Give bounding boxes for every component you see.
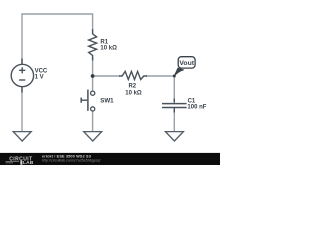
- wire C1 bottom to ground: [173, 108, 175, 132]
- wire node Vout to C1 top: [173, 76, 175, 102]
- svg-text:Vout: Vout: [179, 60, 194, 67]
- svg-text:R2: R2: [128, 84, 136, 90]
- wire node A to SW1 top: [92, 76, 94, 91]
- node A junction dot: [91, 74, 95, 78]
- wire VCC bottom to ground: [21, 87, 23, 132]
- wire R1 bottom to node A: [92, 57, 94, 76]
- wire SW1 bottom to ground: [92, 111, 94, 132]
- svg-text:http://circuitlab.com/c7a35e5h: http://circuitlab.com/c7a35e5h6gza3/: [42, 158, 101, 162]
- svg-text:10 kΩ: 10 kΩ: [100, 45, 117, 51]
- ground (below SW1): [84, 132, 102, 141]
- ground (below VCC): [13, 132, 31, 141]
- capacitor C1: [162, 99, 187, 113]
- label R2 10 kOhm: [125, 84, 142, 97]
- label R1 10 kOhm: [100, 39, 117, 51]
- voltage source V1 (VCC): [11, 59, 33, 93]
- svg-text:10 kΩ: 10 kΩ: [125, 90, 142, 96]
- wire top rail (VCC top to R1 top): [22, 14, 93, 65]
- switch SW1 (pushbutton): [81, 90, 95, 111]
- resistor R2: [119, 71, 147, 79]
- footer text: [42, 155, 101, 163]
- resistor R1: [89, 29, 97, 61]
- node Vout junction dot: [173, 75, 176, 78]
- ground (below C1): [165, 132, 183, 141]
- svg-text:100 nF: 100 nF: [187, 105, 206, 111]
- label C1 100 nF: [187, 99, 206, 111]
- svg-text:SW1: SW1: [100, 98, 114, 105]
- svg-text:▮LAB: ▮LAB: [20, 160, 34, 165]
- Vout flag tail: [174, 68, 184, 77]
- wire node A to R2 left: [93, 75, 120, 77]
- svg-text:1 V: 1 V: [35, 74, 44, 80]
- footer bar: [0, 153, 220, 165]
- wire R2 right to node Vout: [146, 75, 174, 77]
- label VCC 1 V: [35, 68, 48, 80]
- label SW1: [100, 98, 114, 105]
- Vout flag: [178, 57, 195, 68]
- CircuitLab logo: [6, 156, 34, 165]
